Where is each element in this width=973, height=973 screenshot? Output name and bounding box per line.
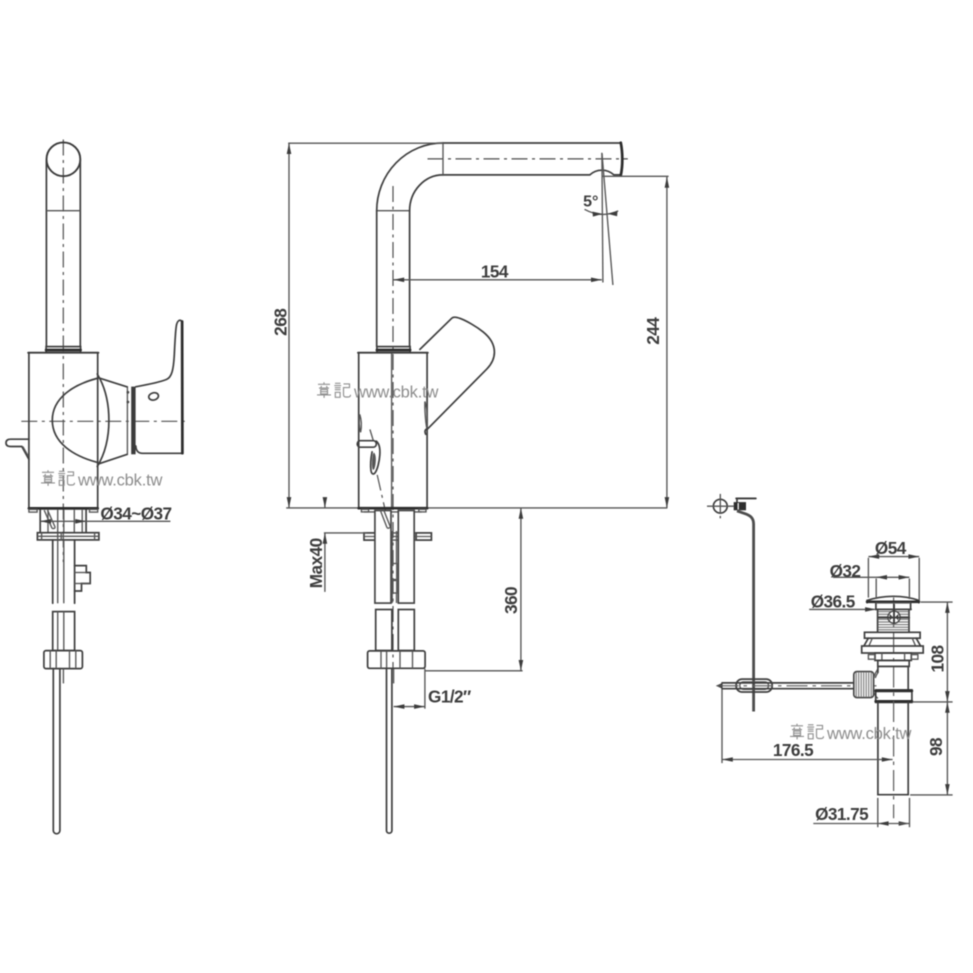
middle view: body bottom edge <box>359 507 427 510</box>
middle view: pipe collar <box>377 347 410 353</box>
middle view: slanted pop-up rod below body <box>380 510 390 528</box>
svg-text:www.cbk.tw: www.cbk.tw <box>353 384 438 402</box>
svg-text:Ø31.75: Ø31.75 <box>815 804 869 824</box>
middle view: pop-up lever knob <box>357 441 376 448</box>
middle view: vertical centerline <box>392 186 394 670</box>
right view: tapered collar <box>864 638 921 646</box>
middle view: deck mounting line <box>286 507 667 509</box>
left view: body bottom edge <box>29 507 98 510</box>
dimension 268 line <box>288 143 290 508</box>
5 degree angle arc <box>585 209 619 214</box>
svg-text:268: 268 <box>271 308 291 336</box>
middle view: body rectangle <box>358 353 360 508</box>
middle view: spout horizontal pipe top <box>443 142 621 144</box>
middle view: supply nut <box>368 651 426 668</box>
left view: supply nut <box>44 651 83 669</box>
middle view: body left edge sliver <box>359 415 361 433</box>
left view: pop-up lift rod <box>53 669 60 834</box>
left view: cartridge thin ring <box>126 387 128 453</box>
svg-text:www.cbk.tw: www.cbk.tw <box>826 725 911 743</box>
left view: side lever fitting <box>6 439 29 459</box>
middle view: bend outer arc <box>377 143 443 211</box>
right view: slip nut collar <box>876 690 912 703</box>
middle view: base feet <box>361 509 368 512</box>
middle view: horizontal centerline of spout <box>428 158 628 160</box>
svg-text:www.cbk.tw: www.cbk.tw <box>77 472 162 490</box>
left view: body dome bulge <box>97 374 109 467</box>
dimension Ø31.75 <box>813 823 898 825</box>
right view: clevis strap <box>736 679 772 692</box>
middle view: pop-up lift rod <box>387 668 392 833</box>
left view: spout opening circle <box>47 142 81 176</box>
svg-text:Ø32: Ø32 <box>830 561 861 581</box>
middle view: escutcheon flange tabs <box>364 533 384 540</box>
middle view: spout horizontal pipe bottom with outlet bump <box>443 170 621 175</box>
dimension 108 <box>946 602 948 702</box>
right view: pivot rod centerline <box>718 685 878 687</box>
left view: side hose fitting <box>75 566 91 591</box>
left view: spout tube <box>45 161 47 347</box>
right view: horizontal pivot rod <box>722 682 857 684</box>
svg-text:Ø54: Ø54 <box>875 538 907 558</box>
right view: drain tee body <box>877 666 879 672</box>
left view: joint sphere silhouette <box>52 379 96 463</box>
svg-text:244: 244 <box>643 317 663 345</box>
middle view: threaded shanks upper <box>375 511 391 604</box>
svg-text:G1/2″: G1/2″ <box>428 687 471 707</box>
left view: mounting shank below body <box>39 510 41 533</box>
middle view: bend inner arc <box>410 175 443 211</box>
dimension 154 line <box>393 279 601 281</box>
dimension 176.5 <box>721 690 723 764</box>
left view: cartridge dark ring <box>131 387 135 455</box>
dimension Ø32 <box>833 576 909 578</box>
watermark left view <box>41 470 162 489</box>
svg-text:154: 154 <box>481 261 509 281</box>
middle view: pop-up lever hook <box>371 441 380 474</box>
left view: threaded shank upper <box>52 540 54 603</box>
dimension 244 line <box>666 177 668 508</box>
left view: horizontal centerline <box>21 420 186 422</box>
right view: rod clamp block <box>734 502 746 510</box>
right view: wide flange ring <box>862 646 924 653</box>
middle view: lever axis dash line <box>377 475 389 529</box>
svg-text:176.5: 176.5 <box>773 740 814 760</box>
right view: clamp bracket <box>736 497 756 499</box>
left view: handle blade bold rear edge <box>181 322 184 454</box>
dimension Ø54 <box>868 556 919 558</box>
middle view: body center seam <box>391 353 393 507</box>
middle view: bend seam lines <box>377 210 410 212</box>
right view: pop-up dome cap <box>867 596 919 603</box>
left view: spout collar <box>46 347 81 353</box>
middle view: threaded shanks lower <box>376 610 392 651</box>
right view: washer ring <box>865 632 921 638</box>
right view: lift rod knob circle <box>713 499 727 513</box>
middle view: handle (angled) <box>420 317 495 434</box>
right view: cap skirt <box>875 603 877 610</box>
left view: handle body and blade <box>136 320 183 453</box>
watermark right view <box>790 724 911 743</box>
svg-text:360: 360 <box>501 587 521 614</box>
middle view: body right edge sliver <box>425 402 428 429</box>
right view: tailpipe <box>877 702 879 794</box>
left view: escutcheon flange <box>37 533 99 540</box>
left view: vertical centerline <box>62 140 64 563</box>
svg-text:108: 108 <box>928 644 948 672</box>
dimension Max40 <box>324 498 326 508</box>
left view: spout tube seam <box>46 210 80 212</box>
right view: locknut <box>875 653 911 660</box>
svg-text:Max40: Max40 <box>306 538 326 588</box>
dimension 360 <box>520 508 522 671</box>
svg-text:Ø36.5: Ø36.5 <box>811 591 856 611</box>
svg-text:Ø34~Ø37: Ø34~Ø37 <box>100 503 171 523</box>
right view: drain centerline <box>893 598 895 819</box>
left view: threaded shank lower <box>53 612 75 651</box>
left view: base feet <box>29 509 37 512</box>
dimension G1/2 <box>424 669 426 709</box>
dimension Ø34~Ø37 (left view) <box>40 520 170 522</box>
left view: body outline <box>29 353 98 508</box>
watermark middle view <box>317 382 438 401</box>
left view: handle ellipse mark <box>148 392 159 401</box>
right view: pivot ball nut (knurled) <box>854 672 874 698</box>
5 degree reference lines <box>602 153 603 283</box>
svg-text:5°: 5° <box>583 194 598 211</box>
left view: cartridge cone <box>98 378 128 465</box>
middle view: pop-up rod between shanks <box>391 531 393 563</box>
right view: threaded neck <box>877 609 879 632</box>
middle view: spout end cap <box>621 143 623 176</box>
left view: two small dots <box>127 391 130 394</box>
dimension Ø36.5 leader <box>809 608 874 610</box>
dimension 98 <box>946 702 948 795</box>
svg-text:98: 98 <box>926 737 946 756</box>
middle view: vertical pipe <box>376 211 378 347</box>
left view: slanted pop-up rod stub <box>44 510 55 528</box>
right view: vertical lift rod <box>737 511 754 712</box>
